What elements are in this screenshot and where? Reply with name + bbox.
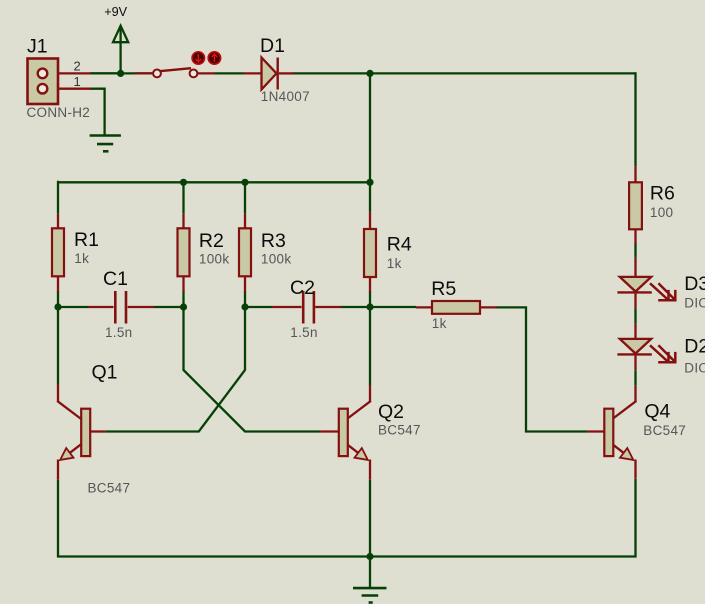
wire node A to C1 [58, 306, 88, 308]
transistor Q1 [57, 385, 105, 480]
wire bottom ground rail [57, 555, 637, 557]
wire R1 top [57, 181, 59, 214]
wire R3 bottom [244, 291, 246, 307]
switch SW [135, 68, 215, 77]
svg-text:100k: 100k [199, 252, 229, 267]
junction VCC at x370 [366, 70, 373, 77]
wire node D to R5 [370, 306, 416, 308]
svg-text:D2: D2 [684, 336, 705, 358]
svg-text:C2: C2 [290, 277, 315, 299]
svg-text:R4: R4 [387, 233, 412, 255]
wire Q1 emitter to bottom rail [57, 480, 59, 557]
svg-text:R6: R6 [650, 183, 675, 205]
capacitor C2 [272, 291, 342, 324]
resistor R2 [178, 214, 190, 292]
resistor R3 [239, 214, 251, 292]
svg-text:2: 2 [74, 59, 81, 74]
junction node B [180, 303, 187, 310]
svg-text:J1: J1 [27, 36, 48, 58]
LED D3 [617, 258, 675, 308]
wire VCC top rail [90, 72, 636, 74]
wire right branch down to R6 [634, 72, 636, 166]
wire R6 bottom segment [634, 243, 636, 258]
svg-text:1k: 1k [74, 251, 89, 266]
svg-text:1k: 1k [432, 316, 447, 331]
power symbol +9V [113, 26, 128, 74]
capacitor C1 [88, 291, 154, 324]
resistor R4 [364, 212, 376, 292]
svg-text:Q2: Q2 [378, 401, 404, 423]
svg-text:D1: D1 [260, 35, 285, 57]
resistor R5 [416, 301, 497, 314]
junction rail2 at R2 [180, 179, 187, 186]
junction rail2 at x370 [366, 179, 373, 186]
junction node C [241, 303, 248, 310]
wire vertical x=370 from top rail to rail2 [369, 73, 371, 211]
wire Q2 collector from node D [369, 307, 371, 385]
svg-text:Q4: Q4 [644, 401, 670, 423]
svg-text:CONN-H2: CONN-H2 [27, 105, 91, 120]
wire C2 to node D [341, 306, 370, 308]
svg-text:R1: R1 [74, 229, 99, 251]
junction rail2 at R3 [241, 179, 248, 186]
svg-text:1.5n: 1.5n [105, 325, 132, 340]
svg-text:BC547: BC547 [378, 423, 421, 438]
wire LED D2 bottom segment [634, 370, 636, 386]
wire R1 bottom to node A [57, 291, 59, 307]
svg-text:1k: 1k [387, 256, 402, 271]
wire LED D3 bottom segment [634, 308, 636, 323]
wire second rail y=181.8 [58, 181, 370, 183]
svg-text:DIODE-LED: DIODE-LED [684, 361, 705, 376]
svg-text:R3: R3 [261, 230, 286, 252]
wire R2 top [182, 182, 184, 213]
svg-text:1.5n: 1.5n [290, 325, 317, 340]
connector J1 [28, 59, 92, 105]
transistor Q2 [320, 385, 370, 480]
svg-text:100: 100 [650, 205, 673, 220]
wire cross-coupling node B to Q2 base [184, 307, 321, 432]
svg-text:R5: R5 [431, 278, 456, 300]
wire cross-coupling node C to Q1 base [106, 307, 245, 432]
svg-text:BC547: BC547 [88, 481, 131, 496]
svg-text:Q1: Q1 [92, 362, 118, 384]
junction VCC at power symbol [117, 70, 124, 77]
wire node C to C2 [245, 306, 272, 308]
resistor R1 [52, 214, 64, 292]
junction node A [54, 303, 61, 310]
svg-text:BC547: BC547 [643, 423, 686, 438]
svg-text:DIODE-LED: DIODE-LED [684, 296, 705, 311]
switch actuator button down [192, 52, 204, 64]
ground symbol (J1) [90, 136, 121, 152]
LED D2 [617, 323, 675, 370]
svg-text:1N4007: 1N4007 [261, 89, 310, 104]
svg-text:1: 1 [74, 74, 81, 89]
svg-text:D3: D3 [684, 273, 705, 295]
wire R4 bottom [369, 291, 371, 307]
svg-text:C1: C1 [103, 268, 128, 290]
transistor Q4 [588, 386, 637, 479]
wire Q4 emitter to bottom rail [634, 479, 636, 557]
wire Q2 emitter to bottom rail [369, 480, 371, 557]
resistor R6 [629, 166, 642, 244]
wire J1 pin1 to ground [90, 89, 105, 136]
wire J1 pin2 to vcc junction [90, 72, 121, 74]
junction node D [366, 303, 373, 310]
junction ground rail [366, 553, 373, 560]
wire Q1 collector from node A [57, 307, 59, 385]
wire R5 to Q4 base [496, 307, 587, 431]
svg-text:R2: R2 [199, 230, 224, 252]
switch actuator button up [208, 52, 220, 64]
svg-text:100k: 100k [261, 252, 291, 267]
wire R3 top [244, 182, 246, 213]
ground symbol (main) [369, 557, 371, 589]
svg-text:+9V: +9V [104, 5, 127, 19]
wire C1 to node B [154, 306, 184, 308]
wire R2 bottom [182, 291, 184, 307]
diode D1 [244, 58, 294, 90]
